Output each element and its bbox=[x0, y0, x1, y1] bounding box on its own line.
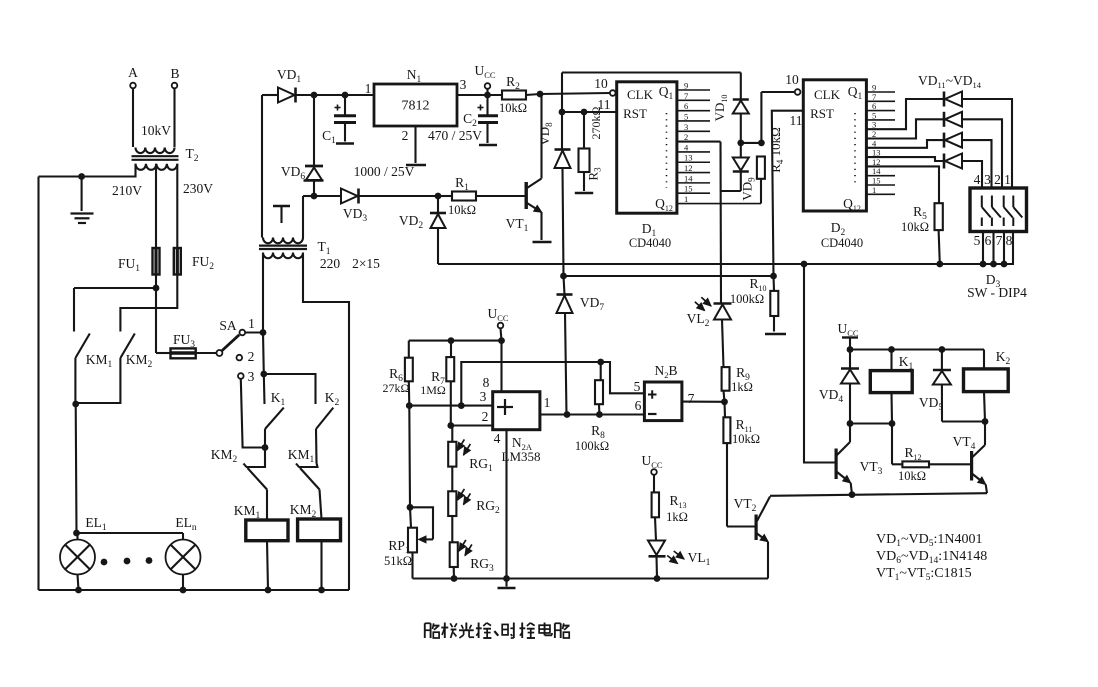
diode VD11 with wiring bbox=[866, 92, 1012, 189]
svg-text:13: 13 bbox=[684, 153, 693, 163]
transformer T2 core bbox=[132, 156, 179, 160]
svg-text:CLK: CLK bbox=[814, 87, 841, 102]
diode VD12 with wiring bbox=[866, 112, 1002, 188]
wire pin4 down bbox=[505, 430, 507, 579]
wire D2 RST bbox=[772, 111, 804, 276]
node pin4 ground bbox=[503, 575, 510, 582]
relay coil K2 bbox=[964, 349, 1011, 422]
svg-text:CLK: CLK bbox=[627, 87, 654, 102]
label SW-DIP4 bbox=[967, 285, 1027, 300]
svg-text:5: 5 bbox=[684, 111, 688, 121]
node T2-ground junction bbox=[78, 173, 85, 180]
svg-text:VT1~VT5:C1815: VT1~VT5:C1815 bbox=[876, 566, 972, 583]
node SA-1 junction bbox=[260, 329, 267, 336]
wire RG3 to bus bbox=[453, 567, 455, 579]
transformer T1 label bbox=[318, 239, 331, 257]
wire lamps feeder down bbox=[75, 404, 78, 533]
svg-text:SW - DIP4: SW - DIP4 bbox=[967, 285, 1027, 300]
node VL1 bottom bbox=[654, 575, 661, 582]
svg-text:27kΩ: 27kΩ bbox=[383, 381, 410, 395]
svg-text:10kΩ: 10kΩ bbox=[448, 203, 476, 217]
relay coil K1 bbox=[870, 350, 913, 424]
transformer T2 primary winding bbox=[136, 148, 175, 154]
svg-text:10kΩ: 10kΩ bbox=[898, 469, 926, 483]
node pin8 tap bbox=[498, 337, 505, 344]
svg-text:2: 2 bbox=[402, 128, 409, 143]
relay coil KM2 bbox=[290, 502, 341, 590]
label 220 bbox=[320, 256, 341, 271]
wire D2 CLK drive bbox=[761, 92, 794, 143]
capacitor C2 bbox=[463, 95, 498, 145]
photoresistor RG3 bbox=[450, 516, 494, 574]
transistor VT3 bbox=[835, 424, 883, 495]
resistor R11 bbox=[723, 402, 760, 527]
contact SA-3 bbox=[238, 369, 255, 384]
diode VD4 bbox=[819, 350, 859, 424]
svg-text:2×15: 2×15 bbox=[352, 256, 380, 271]
note line 2 bbox=[876, 549, 987, 566]
resistor R1 bbox=[438, 175, 526, 217]
terminal Ucc top bbox=[474, 63, 495, 95]
node ELn bottom bbox=[180, 587, 187, 594]
DIP switch bottom pin labels bbox=[974, 233, 1013, 248]
fuse FU2 bbox=[174, 248, 214, 275]
node pin3 left bbox=[406, 402, 413, 409]
resistor R12 bbox=[892, 424, 970, 484]
wire T1 primary right return bbox=[303, 253, 349, 591]
wire T2 secondary left to ground line bbox=[39, 164, 136, 177]
svg-text:A: A bbox=[128, 65, 138, 80]
svg-text:7: 7 bbox=[684, 91, 688, 101]
DIP switch top pin labels bbox=[974, 172, 1011, 187]
diode VD14 with wiring bbox=[866, 148, 982, 188]
transformer T2 label bbox=[186, 146, 199, 164]
svg-text:1: 1 bbox=[872, 185, 876, 195]
fuse FU1 bbox=[118, 248, 160, 275]
relay rail bbox=[850, 348, 984, 350]
contact KM2 lower bbox=[211, 447, 267, 520]
wire T2 right tap down bbox=[176, 164, 178, 248]
svg-text:1: 1 bbox=[248, 316, 255, 331]
svg-text:VD11~VD14: VD11~VD14 bbox=[918, 73, 982, 90]
resistor R9 bbox=[722, 365, 753, 402]
resistor R5 bbox=[866, 157, 942, 264]
svg-text:1kΩ: 1kΩ bbox=[666, 510, 688, 524]
diode VD7 bbox=[557, 276, 605, 415]
op-amp N2B LM358 bbox=[634, 363, 695, 421]
contact SA-2 bbox=[237, 349, 255, 364]
svg-text:1: 1 bbox=[684, 194, 688, 204]
node VD7 top bbox=[560, 273, 567, 280]
svg-text:1000 / 25V: 1000 / 25V bbox=[354, 164, 415, 179]
diode VD8 bbox=[537, 122, 571, 276]
svg-text:10: 10 bbox=[594, 76, 608, 91]
IC D1 output pin stubs bbox=[677, 81, 761, 205]
diode VD9 bbox=[733, 143, 757, 201]
wire left edge vertical bbox=[37, 177, 39, 591]
node CLK drive bbox=[537, 91, 544, 98]
ground symbol analog bbox=[498, 579, 516, 589]
svg-text:6: 6 bbox=[684, 101, 688, 111]
svg-text:5: 5 bbox=[974, 233, 981, 248]
diode VD10 bbox=[712, 73, 749, 143]
node KM contacts join bbox=[72, 401, 79, 408]
svg-text:2: 2 bbox=[248, 349, 255, 364]
svg-text:220: 220 bbox=[320, 256, 341, 271]
svg-text:RST: RST bbox=[810, 106, 834, 121]
rail Ucc opamp bbox=[409, 340, 502, 342]
svg-text:2: 2 bbox=[684, 132, 688, 142]
ellipsis between lamps bbox=[101, 557, 153, 565]
svg-text:6: 6 bbox=[635, 398, 642, 413]
terminal Ucc opamp A bbox=[487, 306, 508, 341]
node R5 bottom bbox=[936, 261, 943, 268]
transistor VT4 bbox=[953, 434, 987, 493]
label 230V bbox=[183, 181, 213, 196]
svg-text:RST: RST bbox=[623, 106, 647, 121]
svg-text:3: 3 bbox=[248, 369, 255, 384]
svg-text:51kΩ: 51kΩ bbox=[384, 554, 412, 568]
svg-text:7: 7 bbox=[688, 391, 695, 406]
resistor R8 bbox=[575, 362, 609, 453]
wire FU1 branch left bbox=[74, 287, 156, 289]
svg-text:2: 2 bbox=[994, 172, 1001, 187]
label pin 11 D1 bbox=[598, 97, 611, 112]
note line 3 bbox=[876, 566, 972, 583]
svg-text:100kΩ: 100kΩ bbox=[575, 439, 609, 453]
svg-text:10: 10 bbox=[785, 72, 799, 87]
LED VL2 bbox=[687, 297, 732, 367]
node K branch split bbox=[260, 371, 267, 378]
contact KM1 upper bbox=[74, 288, 113, 404]
node R8 top bbox=[597, 359, 604, 366]
label 2x15 bbox=[352, 256, 380, 271]
node VD4 bottom bbox=[847, 420, 854, 427]
diode VD1 bbox=[262, 67, 314, 103]
label VD11-VD14 bbox=[918, 73, 982, 90]
svg-text:10kΩ: 10kΩ bbox=[732, 432, 760, 446]
node K1 bottom bbox=[262, 444, 269, 451]
node K1 top bbox=[888, 346, 895, 353]
transistor VT2 bbox=[734, 496, 770, 579]
wire T1 secondary right up bbox=[302, 196, 304, 238]
wire T2 center tap down bbox=[155, 164, 157, 248]
node RG3 bottom bbox=[451, 575, 458, 582]
node RP1 wiper tap bbox=[407, 504, 414, 511]
svg-text:CD4040: CD4040 bbox=[821, 236, 863, 250]
node VD10 bottom bbox=[737, 140, 744, 147]
node VD1 cathode bbox=[311, 92, 318, 99]
transformer T2 secondary winding bbox=[136, 164, 178, 170]
resistor R4 bbox=[757, 127, 785, 203]
LED VL1 bbox=[648, 541, 711, 579]
resistor R6 bbox=[383, 341, 413, 406]
photoresistor RG2 bbox=[448, 467, 500, 516]
wire pin7 output bbox=[682, 401, 725, 403]
contact KM2 upper bbox=[76, 334, 153, 404]
svg-text:SA: SA bbox=[219, 318, 237, 333]
svg-text:10kV: 10kV bbox=[141, 123, 171, 138]
node C2 tap bbox=[484, 92, 491, 99]
node K2 bottom bbox=[982, 418, 989, 425]
node pin7 junction bbox=[721, 398, 728, 405]
node R4 top bbox=[758, 140, 765, 147]
wire pin1 output bbox=[540, 395, 645, 415]
switch SA bbox=[196, 318, 263, 356]
wire VD1 anode column bbox=[261, 95, 263, 238]
wire D1 pin2 to VD9/VL2 bbox=[677, 132, 741, 302]
svg-text:1: 1 bbox=[1004, 172, 1011, 187]
svg-text:7812: 7812 bbox=[402, 99, 430, 114]
lamp ELn bbox=[166, 515, 201, 590]
caption street lamp light control timing circuit bbox=[425, 623, 570, 639]
photoresistor RG1 bbox=[448, 426, 493, 475]
node feedback tap bbox=[458, 402, 465, 409]
potentiometer RP1 bbox=[384, 406, 433, 579]
svg-text:B: B bbox=[170, 66, 179, 81]
node VD7 bottom bbox=[564, 411, 571, 418]
label 1000/25V bbox=[354, 164, 415, 179]
IC D2 CD4040 bbox=[795, 80, 867, 250]
terminal Ucc mid bbox=[641, 453, 662, 492]
svg-text:100kΩ: 100kΩ bbox=[730, 292, 764, 306]
wire SA column bbox=[262, 333, 265, 375]
node lamp wire left bbox=[73, 530, 80, 537]
wire pin8 bbox=[483, 341, 502, 392]
svg-text:11: 11 bbox=[598, 97, 611, 112]
label 210V bbox=[112, 183, 142, 198]
svg-text:210V: 210V bbox=[112, 183, 142, 198]
svg-text:15: 15 bbox=[684, 184, 693, 194]
emitter bus VT3 VT4 bbox=[770, 493, 987, 496]
IC D1 CD4040 bbox=[610, 82, 677, 250]
reset bus bbox=[438, 232, 1013, 265]
svg-text:8: 8 bbox=[483, 375, 490, 390]
svg-text:5: 5 bbox=[634, 379, 641, 394]
contact K1 bbox=[264, 374, 286, 448]
op-amp N2A LM358 bbox=[493, 392, 541, 464]
svg-text:1: 1 bbox=[544, 395, 551, 410]
node R10 top bbox=[770, 273, 777, 280]
svg-text:230V: 230V bbox=[183, 181, 213, 196]
diode VD2 bbox=[399, 196, 446, 264]
wire bottom bus left section bbox=[39, 589, 350, 591]
svg-text:10kΩ: 10kΩ bbox=[499, 101, 527, 115]
capacitor C1 bbox=[322, 95, 356, 146]
node VD6 bottom bbox=[303, 193, 317, 200]
resistor R2 bbox=[499, 74, 540, 115]
terminal Ucc relay bbox=[837, 321, 858, 350]
wire FU1 column down bbox=[155, 275, 157, 354]
note line 1 bbox=[876, 532, 983, 549]
node R8 bottom bbox=[596, 411, 603, 418]
node K1 bottom bbox=[889, 420, 896, 427]
node VD8 top bbox=[559, 109, 566, 116]
node VT3 emitter bbox=[849, 491, 856, 498]
node VD5 top bbox=[939, 346, 946, 353]
svg-text:3: 3 bbox=[984, 172, 991, 187]
label pin 10 D1 bbox=[594, 76, 608, 91]
contact KM1 lower bbox=[288, 447, 322, 519]
node R3 top bbox=[581, 109, 588, 116]
transistor VT1 bbox=[476, 94, 552, 242]
node VT3 base tap bbox=[801, 261, 808, 268]
transformer T1 primary winding bbox=[263, 253, 303, 259]
analog ground bus bbox=[413, 577, 769, 579]
node below FU1 bbox=[153, 285, 160, 292]
wire K2 to VT4 collector bbox=[984, 422, 986, 446]
node KM2 coil bottom bbox=[318, 587, 325, 594]
svg-text:3: 3 bbox=[480, 389, 487, 404]
svg-text:3: 3 bbox=[684, 122, 688, 132]
svg-text:9: 9 bbox=[684, 81, 688, 91]
terminal B bbox=[170, 66, 179, 147]
svg-text:1kΩ: 1kΩ bbox=[731, 380, 753, 394]
svg-text:3: 3 bbox=[460, 77, 467, 92]
svg-text:4: 4 bbox=[494, 431, 501, 446]
diode VD5 bbox=[919, 350, 985, 422]
svg-text:10kΩ: 10kΩ bbox=[901, 220, 929, 234]
svg-text:12: 12 bbox=[872, 157, 881, 167]
fuse FU3 bbox=[156, 332, 196, 358]
label pin 11 D2 bbox=[790, 113, 803, 128]
wire FU2 to KM2 contact bbox=[120, 275, 177, 332]
svg-text:14: 14 bbox=[684, 173, 693, 183]
feedback wire to R8 and pin5 bbox=[461, 362, 644, 406]
terminal A bbox=[128, 65, 138, 147]
transformer T1 core bbox=[259, 246, 307, 249]
svg-text:1MΩ: 1MΩ bbox=[420, 383, 446, 397]
wire SA-3 down bbox=[241, 379, 265, 448]
svg-text:CD4040: CD4040 bbox=[629, 236, 671, 250]
secondary bus bbox=[564, 275, 774, 277]
svg-text:1: 1 bbox=[365, 81, 372, 96]
DIP switch D3 body bbox=[970, 188, 1027, 232]
lamp EL1 bbox=[60, 515, 107, 590]
wire N1 output bbox=[457, 94, 502, 96]
node R1 input bbox=[435, 193, 442, 200]
svg-text:7: 7 bbox=[996, 233, 1003, 248]
label 10kV bbox=[141, 123, 171, 138]
node Ucc relay bbox=[847, 346, 854, 353]
wire RST D1 bbox=[562, 111, 617, 113]
label pin 10 D2 bbox=[785, 72, 799, 87]
IC D2 output pin stubs bbox=[866, 83, 895, 195]
resistor R10 bbox=[730, 276, 786, 334]
resistor R3 bbox=[575, 106, 603, 193]
transformer T1 secondary winding bbox=[263, 238, 303, 244]
wire pin2 bbox=[451, 409, 493, 426]
node pin2 left bbox=[447, 422, 454, 429]
node R7 top bbox=[448, 337, 455, 344]
resistor R13 bbox=[652, 492, 688, 540]
contact K2 bbox=[316, 390, 340, 463]
wire T1 primary left to SA bbox=[262, 253, 264, 333]
transformer T1 shield bbox=[273, 206, 290, 223]
svg-text:11: 11 bbox=[790, 113, 803, 128]
resistor R7 bbox=[420, 341, 454, 426]
relay coil KM1 bbox=[234, 503, 288, 590]
wire base VT3 from reset bus bbox=[804, 264, 835, 463]
svg-text:2: 2 bbox=[482, 409, 489, 424]
node EL1 bottom bbox=[75, 587, 82, 594]
svg-text:470 / 25V: 470 / 25V bbox=[428, 128, 482, 143]
DIP switch bottom pins bbox=[980, 232, 1008, 268]
label D3 bbox=[986, 272, 1001, 290]
node KM1 coil bottom bbox=[265, 587, 272, 594]
svg-text:R4 10kΩ: R4 10kΩ bbox=[768, 127, 785, 173]
wire VD1 node to N1 bbox=[314, 94, 374, 96]
diode VD6 bbox=[281, 95, 324, 196]
top bus RST-VD10 bbox=[562, 73, 741, 150]
svg-text:6: 6 bbox=[985, 233, 992, 248]
wire pin3 bbox=[409, 389, 492, 406]
diode VD3 bbox=[314, 189, 438, 225]
label 470/25V bbox=[428, 128, 482, 143]
diode VD13 with wiring bbox=[866, 133, 991, 188]
label SA position 1 bbox=[248, 316, 255, 331]
wire lamp top bus bbox=[77, 532, 184, 534]
wire VD10-R4 link bbox=[741, 142, 762, 144]
svg-text:8: 8 bbox=[1006, 233, 1013, 248]
svg-text:12: 12 bbox=[684, 163, 693, 173]
svg-text:4: 4 bbox=[974, 172, 981, 187]
wire K2 branch top bbox=[264, 374, 316, 404]
wire VD4-K1 link bbox=[850, 422, 892, 424]
earth ground symbol bbox=[71, 177, 94, 224]
voltage regulator N1 bbox=[365, 67, 467, 165]
wire CLK to D1 bbox=[540, 93, 610, 94]
node C1 tap bbox=[342, 92, 349, 99]
